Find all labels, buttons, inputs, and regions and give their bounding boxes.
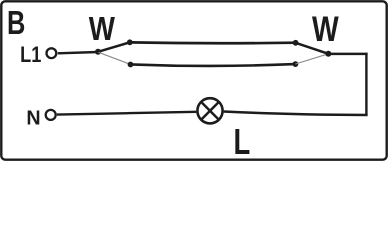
svg-text:N: N	[26, 107, 40, 129]
label L (lamp)	[234, 122, 251, 162]
wire L1 to switch S1 common	[58, 52, 98, 53]
label W (left switch)	[89, 9, 115, 47]
switch S1 open throw (thin)	[99, 52, 131, 64]
label L1 (line terminal)	[20, 43, 41, 67]
node S2 common	[325, 51, 331, 57]
switch S2 open throw (thin)	[295, 54, 328, 64]
node S2 top throw	[293, 40, 299, 46]
svg-text:W: W	[89, 9, 115, 47]
wire N to lamp	[57, 112, 196, 115]
wire top traveler	[130, 41, 296, 45]
wire S2 common to right	[328, 53, 367, 56]
border frame (decorative)	[1, 1, 386, 159]
lamp cross stroke 1	[201, 102, 219, 120]
node S2 bottom throw	[293, 61, 299, 67]
svg-text:B: B	[7, 5, 25, 42]
label N (neutral terminal)	[26, 107, 40, 129]
terminal N	[46, 110, 56, 120]
node S1 common	[95, 49, 101, 55]
label B (diagram variant)	[7, 5, 25, 42]
node S1 top throw	[127, 39, 133, 45]
svg-text:L1: L1	[20, 43, 41, 67]
node S1 bottom throw	[128, 62, 134, 68]
wire bottom traveler	[131, 64, 296, 66]
switch S1 lever (closed to top throw)	[98, 42, 130, 52]
svg-text:L: L	[234, 122, 251, 162]
wire right vertical	[365, 53, 367, 115]
lamp cross stroke 2	[201, 102, 219, 120]
switch S2 lever (closed to top throw)	[296, 43, 329, 54]
label W (right switch)	[312, 9, 339, 49]
svg-text:W: W	[312, 9, 339, 49]
wire lamp to right corner	[224, 112, 368, 116]
terminal L1	[47, 48, 57, 58]
lamp L	[197, 98, 222, 123]
